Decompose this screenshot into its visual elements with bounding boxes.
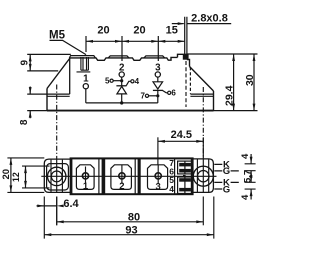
dim 93 line <box>44 234 214 236</box>
right mounting hole inner circle <box>198 171 209 182</box>
right bottom extension line <box>214 110 258 112</box>
separator S3-pins thin line <box>174 158 176 195</box>
separator S1-S2 thin line <box>98 158 100 195</box>
left mounting hole inner circle <box>51 171 62 182</box>
svg-text:20: 20 <box>97 25 109 37</box>
left slot side lines <box>51 160 62 192</box>
dim 6.4 extension lines <box>44 197 56 239</box>
terminal 2 washer strip <box>108 56 129 58</box>
right top extension line <box>188 53 258 55</box>
dim 9 extension lines <box>27 54 71 71</box>
svg-text:2.8x0.8: 2.8x0.8 <box>191 13 228 25</box>
tab center line (dash) <box>185 61 187 107</box>
svg-text:4: 4 <box>240 194 251 200</box>
svg-text:4: 4 <box>169 184 174 194</box>
terminal 1 hidden screw box <box>77 70 91 72</box>
wire terminal3 to thyristor T2 <box>157 77 159 82</box>
terminal 1 screw slot <box>81 57 89 70</box>
svg-text:1: 1 <box>83 181 89 192</box>
terminal 3 washer strip <box>144 56 165 58</box>
terminal 3 center tick <box>157 165 159 184</box>
dim 93 extension right <box>213 197 215 239</box>
80 left extension below cap <box>56 197 58 226</box>
wire to pin 7 <box>149 95 158 97</box>
right slot side lines <box>197 159 208 192</box>
svg-text:15: 15 <box>166 25 178 37</box>
extension line terminal3 center <box>157 36 159 61</box>
svg-text:5.7: 5.7 <box>242 170 253 183</box>
separator cap-body left <box>71 158 73 195</box>
module right slant edge <box>190 67 214 92</box>
extension line terminal2 center <box>121 36 123 61</box>
svg-text:12: 12 <box>11 172 21 182</box>
thyristor T2 triangle <box>153 82 163 89</box>
terminal 1 washer strip <box>69 56 95 58</box>
svg-text:G: G <box>223 184 230 195</box>
dim 30 line <box>253 54 255 111</box>
dim 8 extension lines <box>27 94 47 111</box>
fast-on tab 2.8x0.8 <box>185 17 187 55</box>
wire terminal2 to thyristor T1 <box>121 77 123 86</box>
terminal 3 circle <box>155 72 160 77</box>
leader dashes right of labels <box>231 171 239 183</box>
dim 24.5 extension right <box>202 137 204 159</box>
terminal 1 circle <box>83 84 88 89</box>
pin box lower <box>178 177 193 194</box>
left end cap <box>44 159 70 192</box>
svg-text:G: G <box>223 166 230 177</box>
module left flange outer edge <box>46 89 48 111</box>
svg-text:5: 5 <box>105 77 110 86</box>
right hidden body edge (dashed) <box>189 67 191 94</box>
module right upper step <box>178 54 190 66</box>
dim 9 line with arrows <box>29 54 31 71</box>
dim 24.5 line <box>158 140 203 142</box>
bus wire <box>86 102 158 104</box>
svg-text:93: 93 <box>125 225 137 237</box>
svg-text:9: 9 <box>19 59 30 65</box>
svg-text:20: 20 <box>133 25 145 37</box>
separator S2-S3 black bar <box>138 158 141 195</box>
dim 12 extension lines <box>22 166 50 188</box>
pin 4 circle <box>131 80 134 83</box>
svg-text:8: 8 <box>19 119 30 125</box>
pin center blob <box>183 175 186 177</box>
dim 4 upper shaft <box>250 154 252 164</box>
terminal well 1 <box>76 165 94 190</box>
2.8x0.8 leader arrow <box>172 23 184 25</box>
pin box upper <box>178 161 193 174</box>
left mounting hole outer circle <box>48 167 66 185</box>
dim 20 extension lines (left) <box>7 158 44 193</box>
svg-text:4: 4 <box>135 77 140 86</box>
separator S2-S3 thin line <box>134 158 136 195</box>
baseplate bottom <box>47 110 214 112</box>
left body edge vertical <box>69 58 71 94</box>
svg-text:30: 30 <box>244 74 256 86</box>
pin 6 circle <box>168 91 171 94</box>
terminal 2 circle <box>119 72 124 77</box>
right mounting hole center line <box>202 87 204 159</box>
dim 6.4 line with outside arrows <box>37 205 57 207</box>
right flange recess lines <box>190 94 213 96</box>
wire terminal1 to bus <box>85 89 87 103</box>
horizontal center line <box>41 175 216 177</box>
svg-text:6.4: 6.4 <box>63 198 79 210</box>
top dim arrows <box>86 40 93 43</box>
right pin dim extension ticks <box>245 164 256 189</box>
node aux cathode T2 junction <box>156 94 159 97</box>
module top profile <box>70 57 178 60</box>
T2 gate wire to pin 6 <box>163 91 168 93</box>
left hole vertical center line <box>56 160 58 193</box>
T1 gate wire to pin 4 <box>126 81 131 85</box>
dim 20 line <box>10 158 12 193</box>
left mounting boss <box>47 164 69 190</box>
thyristor T2 cathode bar <box>153 89 163 91</box>
svg-text:6: 6 <box>171 89 176 98</box>
svg-text:2: 2 <box>119 181 124 192</box>
dim 4 lower shaft <box>250 189 252 199</box>
dim 12 line <box>25 166 27 188</box>
module left slant edge <box>47 58 70 89</box>
right end cap <box>193 159 213 193</box>
terminal well 2 <box>111 165 131 190</box>
dim 80 extension right <box>202 197 204 226</box>
svg-text:M5: M5 <box>49 30 66 42</box>
thyristor T1 triangle <box>117 86 127 94</box>
svg-text:29.4: 29.4 <box>224 85 236 106</box>
pin 7 circle <box>145 94 148 97</box>
node bus-T1 junction <box>120 101 123 104</box>
terminal well 3 <box>148 165 168 190</box>
pin K1 bar <box>179 163 191 167</box>
terminal 2 center tick <box>121 165 123 184</box>
svg-text:3: 3 <box>156 182 161 193</box>
left flange recess lines <box>47 94 70 96</box>
leader dashes left of labels <box>214 164 222 189</box>
dim 8 arrows outside <box>29 87 31 119</box>
extension line terminal1 center <box>85 36 87 52</box>
top dimension line <box>86 40 185 42</box>
terminal 3 screw circle <box>155 173 161 179</box>
module right flange outer edge <box>213 91 215 110</box>
node aux cathode junction <box>120 79 123 82</box>
dim 29.4 line <box>233 54 235 111</box>
separator pins-cap black bar <box>191 158 194 195</box>
svg-text:4: 4 <box>240 153 251 159</box>
wire T1 anode to bus <box>121 94 123 103</box>
SIDE VIEW OUTLINE <box>47 54 214 110</box>
pin upper center line <box>184 162 186 174</box>
2.8x0.8 shelf line <box>187 23 231 25</box>
separator S1-S2 black bar <box>102 158 106 195</box>
BOTTOM VIEW <box>41 158 216 194</box>
pin G2 bar <box>179 188 191 192</box>
svg-text:80: 80 <box>128 212 140 224</box>
terminal 1 center tick <box>85 167 87 184</box>
pin 5 circle <box>110 79 113 82</box>
right hole vertical center line <box>202 159 204 192</box>
dim 24.5 extension left <box>157 137 159 164</box>
wire T2 cathode to bus <box>157 90 159 103</box>
pin K2 bar <box>179 178 191 182</box>
wire to pin 5 <box>113 80 121 82</box>
svg-text:7: 7 <box>141 92 146 101</box>
terminal 1 screw circle <box>82 173 88 179</box>
pin lower center line <box>184 177 186 193</box>
thyristor T1 cathode bar <box>116 85 126 87</box>
terminal 2 screw circle <box>119 173 125 179</box>
right mounting hole outer circle <box>193 166 213 186</box>
module body outline (plan) <box>71 158 193 194</box>
dim 5.7 line <box>250 171 252 183</box>
pin G1 bar <box>179 169 191 173</box>
dim 80 line <box>57 221 204 223</box>
svg-text:24.5: 24.5 <box>171 129 192 141</box>
tab black base <box>183 54 189 60</box>
left mounting hole center line <box>56 85 58 160</box>
M5 leader <box>50 40 87 54</box>
